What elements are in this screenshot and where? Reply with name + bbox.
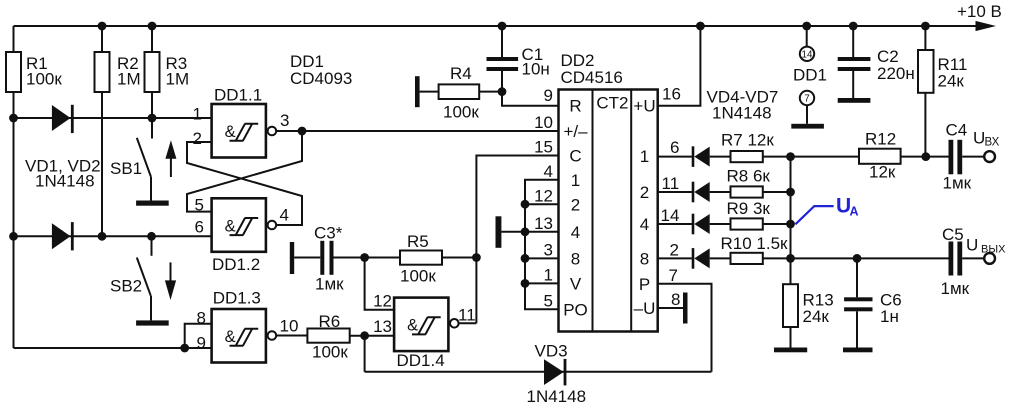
wire bracket pin1 <box>525 282 559 284</box>
svg-text:1: 1 <box>544 266 553 285</box>
svg-text:+10 В: +10 В <box>957 2 1002 21</box>
svg-text:1: 1 <box>640 147 649 166</box>
node pin13 junction <box>360 331 369 340</box>
wire C4 to input terminal <box>962 156 984 158</box>
svg-text:8: 8 <box>197 309 206 328</box>
node rail C2 <box>849 22 858 31</box>
svg-text:ВХ: ВХ <box>985 137 1000 149</box>
wire top +10V rail <box>14 25 980 27</box>
svg-text:DD1.4: DD1.4 <box>397 351 445 370</box>
svg-text:1мк: 1мк <box>315 275 344 294</box>
svg-text:VD3: VD3 <box>535 342 568 361</box>
pin labels DD1.4 <box>373 292 476 337</box>
node row2 R2 <box>98 232 107 241</box>
svg-text:1N4148: 1N4148 <box>35 172 95 191</box>
svg-text:11: 11 <box>458 306 476 325</box>
node bus row11 <box>786 188 795 197</box>
svg-text:100к: 100к <box>312 343 348 362</box>
svg-text:220н: 220н <box>877 64 915 83</box>
svg-text:–U: –U <box>634 299 656 318</box>
node pin9 junction <box>180 344 189 353</box>
wire cross-coupling from DD1.1 pin2 to DD1.2 output pin4 <box>187 142 302 225</box>
power circle pin7 DD1 <box>800 91 814 124</box>
label DD1 CD4093 <box>290 52 352 88</box>
capacitor C1 <box>487 45 550 79</box>
svg-text:1н: 1н <box>880 307 899 326</box>
wire feedback riser pin11 to pin15 <box>476 156 558 324</box>
svg-text:DD1.2: DD1.2 <box>212 255 260 274</box>
wire R6 to DD1.4 pin13 <box>350 335 394 337</box>
ground bar at pin8 <box>683 293 688 324</box>
svg-text:14: 14 <box>661 206 680 225</box>
op-amp gate DD1.1 <box>212 86 266 158</box>
wire bottom rail to pin7 riser <box>365 371 712 373</box>
wire C3 to R5 <box>334 257 401 259</box>
IC DD2 right column labels <box>633 97 655 319</box>
wire R3 vertical <box>151 26 153 118</box>
svg-text:C4: C4 <box>946 121 968 140</box>
wire summing bus vertical <box>790 157 792 259</box>
node rail C1 <box>498 22 507 31</box>
svg-text:12к: 12к <box>869 163 896 182</box>
wire R4 to C1 node and DD2 pin9 <box>479 92 558 106</box>
node at pin3 <box>298 127 307 136</box>
svg-text:7: 7 <box>669 266 678 285</box>
svg-text:11: 11 <box>662 174 680 193</box>
wire row1 to DD1.1 pin1 <box>14 117 212 119</box>
svg-text:C: C <box>569 147 581 166</box>
resistor R9 <box>727 199 771 230</box>
wire DD1.1 output pin3 to DD2 pin10 <box>276 130 559 132</box>
wire bracket pin3 <box>525 257 559 259</box>
svg-text:1N4148: 1N4148 <box>527 387 587 406</box>
svg-text:DD1.1: DD1.1 <box>214 86 262 105</box>
label VD1, VD2 1N4148 <box>25 157 101 191</box>
svg-text:DD1: DD1 <box>793 66 827 85</box>
node bus row6 <box>786 152 795 161</box>
wire DD2 pin8 to ground <box>658 307 683 309</box>
svg-text:+U: +U <box>633 97 655 116</box>
svg-text:R10 1.5к: R10 1.5к <box>721 234 789 253</box>
svg-text:4: 4 <box>544 162 553 181</box>
IC DD2 right pin numbers <box>661 85 681 310</box>
wire DD2 pin16 to rail <box>658 26 701 106</box>
arrow down near SB2 <box>165 262 176 300</box>
svg-text:5: 5 <box>195 196 204 215</box>
resistor R4 <box>439 64 480 122</box>
diode VD1 <box>52 105 74 133</box>
svg-text:P: P <box>639 275 650 294</box>
wire ground to C3 <box>294 257 320 259</box>
resistor R8 <box>727 167 771 198</box>
terminal U_VYH <box>966 236 1006 264</box>
IC DD2 CD4516 box <box>559 51 658 332</box>
wire R5 to feedback riser <box>442 257 476 259</box>
node bracket pin1 <box>521 279 530 288</box>
svg-text:1: 1 <box>193 105 202 124</box>
resistor R12 <box>859 130 901 182</box>
svg-text:3: 3 <box>544 241 553 260</box>
button SB1 <box>110 118 169 206</box>
wire DD1.4 output to riser <box>458 322 476 324</box>
svg-text:15: 15 <box>534 138 553 157</box>
resistor R10 <box>721 234 789 264</box>
svg-text:8: 8 <box>640 250 649 269</box>
svg-text:+/–: +/– <box>563 122 588 141</box>
diode VD6 <box>692 214 710 235</box>
wire row pin2 with R10 to C5 <box>658 257 949 259</box>
svg-text:R6: R6 <box>319 312 341 331</box>
svg-text:8: 8 <box>671 290 680 309</box>
wire pin13 node down to bottom rail <box>364 336 366 372</box>
svg-text:1M: 1M <box>166 70 190 89</box>
svg-text:10: 10 <box>280 317 299 336</box>
wire bracket pin12 <box>525 203 559 205</box>
pin labels DD1.3 <box>197 309 299 353</box>
svg-text:CT2: CT2 <box>596 94 628 113</box>
node bracket pin12 <box>521 200 530 209</box>
node C3/R5/DD1.4 pin12 <box>360 253 369 262</box>
pin labels DD1.2 <box>195 196 289 237</box>
node UA label wire (blue) <box>795 195 858 225</box>
svg-text:2: 2 <box>193 129 202 148</box>
wire ground bar to bracket <box>501 231 525 233</box>
resistor R11 <box>918 50 967 93</box>
wire row pin6 with R7 to C4 <box>658 156 949 158</box>
IC DD2 left pin numbers <box>534 86 553 311</box>
svg-text:1мк: 1мк <box>943 174 972 193</box>
wire row2 to DD1.2 pin6 <box>14 235 212 237</box>
svg-text:10: 10 <box>534 113 553 132</box>
node bus row14 <box>786 220 795 229</box>
svg-text:R9 3к: R9 3к <box>727 199 771 218</box>
node row2 left <box>9 232 18 241</box>
svg-text:4: 4 <box>571 223 580 242</box>
svg-text:4: 4 <box>280 206 289 225</box>
capacitor C4 <box>943 121 972 193</box>
resistor R2 <box>95 52 141 92</box>
node row1 R3/SB1 <box>148 114 157 123</box>
svg-text:16: 16 <box>662 85 681 104</box>
node bracket pin3 <box>521 254 530 263</box>
svg-text:10н: 10н <box>522 60 550 79</box>
ground bar at bracket <box>496 216 502 248</box>
node rail R2 <box>98 22 107 31</box>
wire rail to C1 <box>501 26 503 57</box>
svg-text:1: 1 <box>571 171 580 190</box>
svg-text:R8 6к: R8 6к <box>727 167 771 186</box>
capacitor C5 <box>941 225 970 298</box>
op-amp gate DD1.4 <box>394 298 448 370</box>
ground bar C2 <box>838 98 871 103</box>
wire C1 to node <box>501 71 503 92</box>
wire C2 to ground <box>852 71 854 98</box>
svg-text:100к: 100к <box>26 70 62 89</box>
svg-text:8: 8 <box>571 250 580 269</box>
node R4/C1 <box>498 87 507 96</box>
svg-text:R4: R4 <box>450 64 472 83</box>
svg-text:SB2: SB2 <box>110 277 142 296</box>
diode VD7 <box>692 248 710 269</box>
svg-text:13: 13 <box>373 317 392 336</box>
capacitor C3* <box>314 224 344 294</box>
svg-text:100к: 100к <box>400 267 436 286</box>
wire node down to DD1.4 pin12 <box>365 258 395 310</box>
arrow up near SB1 <box>165 140 176 177</box>
wire riser up to DD2 pin7 <box>658 284 712 372</box>
svg-text:PO: PO <box>563 301 588 320</box>
wire C6 to ground <box>856 311 858 347</box>
wire DD1.3 pin8 bend <box>185 324 212 348</box>
wire row pin14 with R9 <box>658 223 791 225</box>
svg-text:R5: R5 <box>407 232 429 251</box>
wire rail to C2 <box>852 26 854 57</box>
ground bar at C3 left <box>290 242 294 274</box>
svg-text:9: 9 <box>197 334 206 353</box>
svg-text:12: 12 <box>373 292 392 311</box>
ground bar C6 <box>843 348 873 353</box>
diode VD5 <box>692 182 710 203</box>
resistor R5 <box>400 232 442 286</box>
inversion bubble DD1.2 <box>268 221 277 230</box>
arrow head of +10V rail <box>976 21 997 31</box>
svg-text:DD1.3: DD1.3 <box>213 289 261 308</box>
terminal U_BX <box>973 129 1000 163</box>
wire R2 vertical <box>101 26 103 236</box>
node R11/R12/C4 <box>921 152 930 161</box>
svg-text:R12: R12 <box>865 130 896 149</box>
svg-text:13: 13 <box>534 214 553 233</box>
node rail pin16 <box>696 22 705 31</box>
svg-text:1мк: 1мк <box>941 279 970 298</box>
diode VD3 <box>527 342 587 407</box>
svg-text:U: U <box>966 236 978 255</box>
wire R13 to ground <box>790 327 792 348</box>
svg-text:U: U <box>973 129 985 148</box>
svg-text:SB1: SB1 <box>110 159 142 178</box>
svg-text:5: 5 <box>544 292 553 311</box>
svg-text:CD4093: CD4093 <box>290 69 352 88</box>
IC DD2 left column labels <box>563 97 588 320</box>
resistor R6 <box>307 312 349 362</box>
wire DD1.3 output to R6 <box>276 335 307 337</box>
node R5 right <box>472 253 481 262</box>
svg-text:2: 2 <box>571 196 580 215</box>
wire bus to R13 <box>790 258 792 284</box>
svg-text:R: R <box>569 97 581 116</box>
svg-text:9: 9 <box>544 86 553 105</box>
svg-text:ВЫХ: ВЫХ <box>981 244 1006 256</box>
node bracket pin13 <box>521 227 530 236</box>
svg-text:C3*: C3* <box>314 224 343 243</box>
pin labels DD1.1 <box>193 105 290 149</box>
svg-text:4: 4 <box>640 215 649 234</box>
wire bracket pin13 <box>525 231 559 233</box>
resistor R1 <box>6 52 62 92</box>
capacitor C2 <box>838 47 915 83</box>
svg-text:V: V <box>570 275 582 294</box>
ground bar DD1 pin7 <box>791 124 824 129</box>
wire R11 to C4 node <box>924 93 926 157</box>
svg-text:CD4516: CD4516 <box>561 68 623 87</box>
svg-text:1N4148: 1N4148 <box>712 104 772 123</box>
power circle pin14 DD1 <box>800 26 814 61</box>
resistor R7 <box>721 131 774 163</box>
svg-text:100к: 100к <box>443 103 479 122</box>
node rail R3 <box>148 22 157 31</box>
node row2 SB2 <box>147 232 156 241</box>
node rail R11 <box>921 22 930 31</box>
wire DD2 pin4..pin5 bracket <box>525 180 559 309</box>
svg-text:14: 14 <box>802 49 813 60</box>
wire bottom-left to DD1.3 pin9 <box>14 347 212 349</box>
ground bar at R4 left <box>415 76 420 107</box>
svg-text:6: 6 <box>670 138 679 157</box>
wire cross-coupling from pin3 node down to DD1.2 pin5 <box>187 131 302 212</box>
svg-text:R7 12к: R7 12к <box>721 131 774 150</box>
svg-text:24к: 24к <box>803 307 830 326</box>
wire node to C6 <box>856 258 858 297</box>
svg-text:7: 7 <box>804 94 809 105</box>
wire rail to R11 <box>924 26 926 50</box>
op-amp gate DD1.3 <box>212 289 266 363</box>
svg-text:C5: C5 <box>942 225 964 244</box>
capacitor C6 <box>844 291 902 327</box>
svg-text:6: 6 <box>195 218 204 237</box>
resistor R3 <box>145 52 190 92</box>
op-amp gate DD1.2 <box>212 198 266 274</box>
inversion bubble DD1.1 <box>268 127 277 136</box>
diode VD4 <box>692 146 710 167</box>
svg-text:2: 2 <box>640 183 649 202</box>
wire row pin11 with R8 <box>658 191 791 193</box>
wire left vertical bus <box>13 26 15 348</box>
diode VD2 <box>52 222 74 250</box>
label VD4-VD7 1N4148 <box>707 88 779 123</box>
ground bar R13 <box>774 348 807 353</box>
node row1 left <box>9 114 18 123</box>
svg-text:2: 2 <box>670 241 679 260</box>
svg-text:1M: 1M <box>117 70 141 89</box>
wire ground to R4 <box>420 91 439 93</box>
node output row at bus <box>853 254 862 263</box>
svg-text:12: 12 <box>534 187 553 206</box>
inversion bubble DD1.4 <box>450 319 459 328</box>
node bus row2 <box>786 254 795 263</box>
inversion bubble DD1.3 <box>268 331 277 340</box>
button SB2 <box>110 236 169 325</box>
wire C5 to output terminal <box>962 257 984 259</box>
svg-text:3: 3 <box>280 111 289 130</box>
resistor R13 <box>783 284 834 327</box>
svg-text:A: A <box>850 205 859 219</box>
node rail DD1-14 <box>802 22 811 31</box>
svg-text:24к: 24к <box>938 72 965 91</box>
